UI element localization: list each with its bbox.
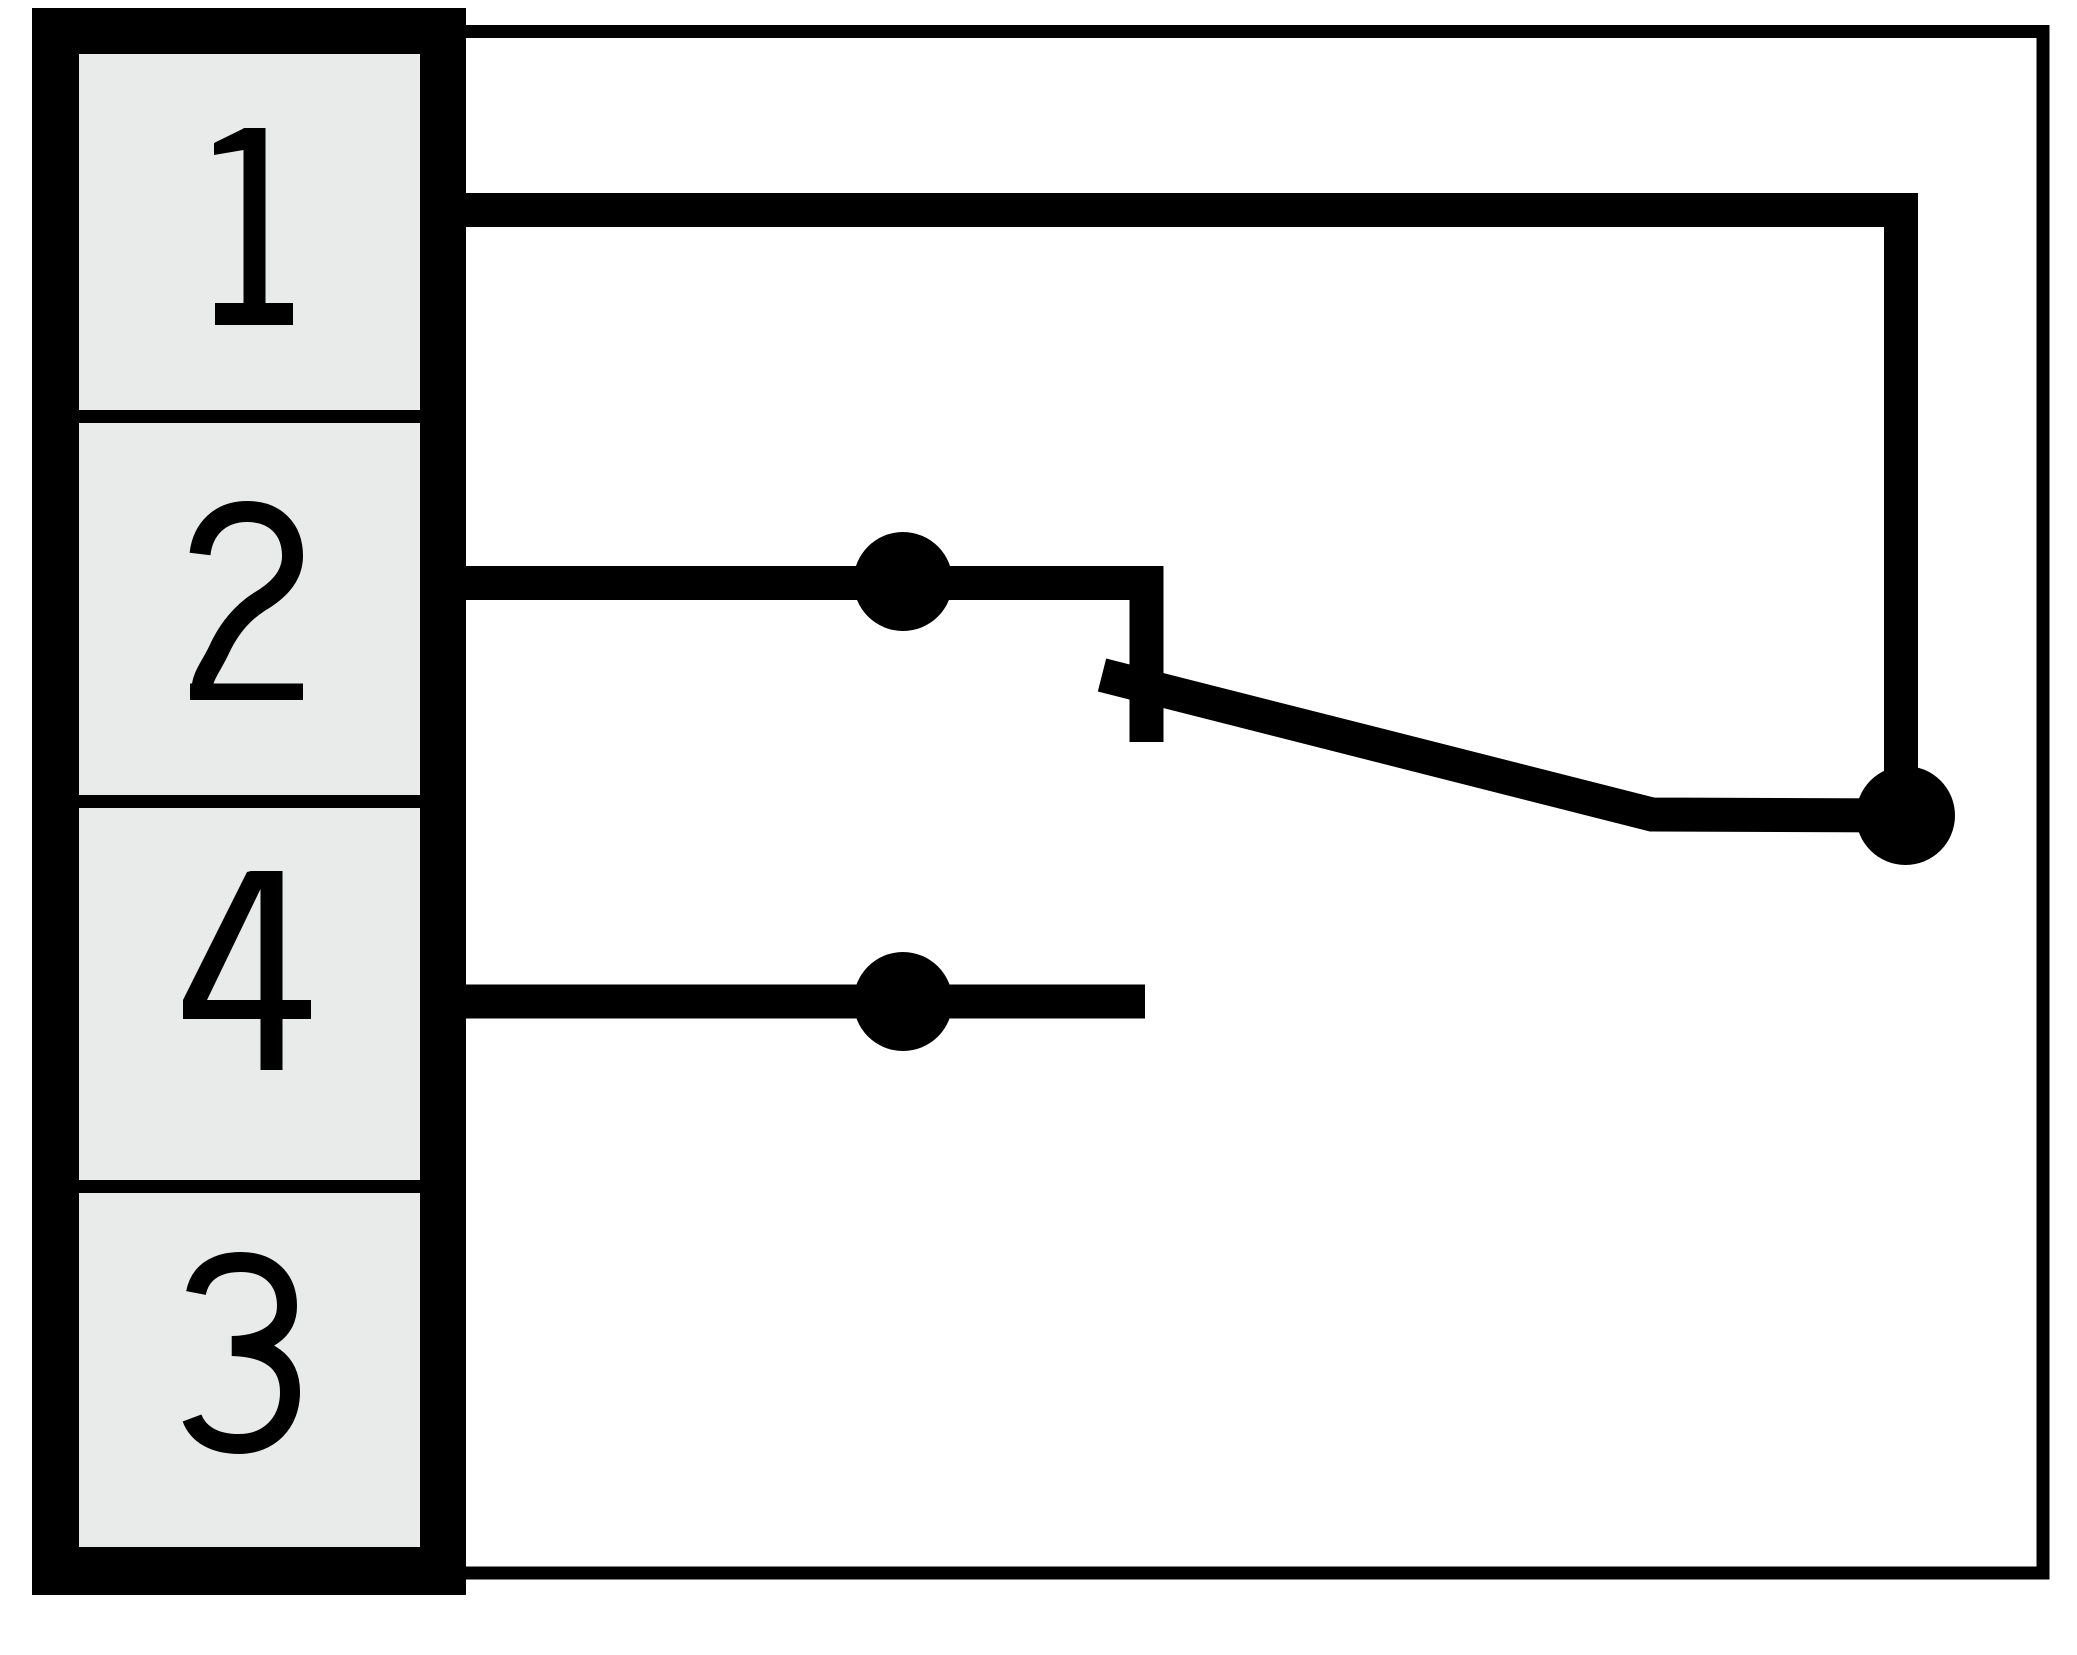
pin 4 cell [79,808,420,1180]
enclosure box [466,32,2043,1574]
pin number 4 [183,871,311,1070]
switch arm [1102,675,1906,816]
pin 2 cell [79,423,420,795]
wire pin 4 stub [466,985,1145,1019]
junction dot pin 2 [854,532,953,631]
pin number 2 [200,512,293,691]
junction dot common [1856,766,1955,865]
pin number 3 [192,1262,290,1444]
pin 3 cell [79,1193,420,1547]
terminal strip X1 body [32,8,466,1595]
pin 1 cell [79,54,420,410]
wire pin 1 to common contact [466,210,1901,816]
wire pin 2 to fixed contact [466,583,1147,742]
junction dot pin 4 [854,952,953,1051]
pin number 1 [214,128,293,325]
